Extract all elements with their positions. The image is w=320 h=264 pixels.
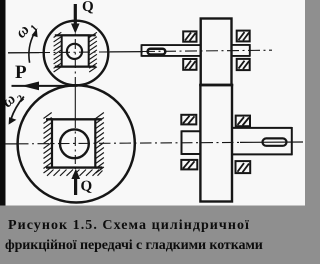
bearing D2 (bottom-right of roller2) bbox=[236, 161, 251, 173]
bearing block 1 square bbox=[62, 35, 89, 66]
svg-text:Q: Q bbox=[81, 179, 93, 195]
bearing D1 (top-right of roller2) bbox=[236, 116, 250, 127]
bearing A2 (bottom-left of roller1) bbox=[183, 59, 196, 70]
centerline vertical (through block2) bbox=[74, 119, 76, 169]
hatching block2 bottom bbox=[47, 170, 103, 176]
svg-text:Q: Q bbox=[82, 0, 94, 15]
shaft journal 1 bbox=[67, 44, 82, 59]
roller 2 circle (front view) bbox=[18, 85, 135, 202]
hatching block1 right bbox=[89, 32, 97, 72]
force Q bottom arrow shaft bbox=[74, 177, 77, 195]
input shaft left section bbox=[142, 44, 201, 46]
bearing A1 (top-left of roller1) bbox=[183, 31, 196, 41]
bearing block 2 right wall bbox=[94, 118, 96, 168]
left black border bar bbox=[0, 0, 6, 206]
svg-text:Р: Р bbox=[15, 62, 27, 83]
centerline top shaft (through side view) bbox=[143, 50, 272, 51]
centerline top shaft (left solid) bbox=[8, 52, 39, 54]
force Q top arrow shaft bbox=[74, 4, 77, 26]
force P arrow line bbox=[12, 85, 78, 87]
hatching block2 left bbox=[44, 113, 52, 174]
shaft journal 2 bbox=[60, 129, 89, 158]
figure caption line 1 bbox=[8, 218, 250, 234]
bearing block 2 bottom wall bbox=[46, 166, 103, 168]
label w2 bbox=[0, 86, 26, 114]
centerline bottom shaft (left solid) bbox=[5, 143, 17, 145]
w1 arc arrowhead bbox=[32, 29, 38, 37]
paper background bbox=[0, 0, 305, 206]
side view: roller 2 rect bbox=[200, 85, 232, 202]
rotation arc w1 bbox=[29, 34, 34, 63]
roller 1 circle (front view) bbox=[44, 21, 109, 86]
centerline vertical (between) bbox=[74, 86, 76, 119]
force P arrowhead bbox=[22, 82, 40, 91]
centerline bottom shaft (through circle) bbox=[17, 142, 240, 143]
bearing C1 (top-left of roller2) bbox=[181, 115, 196, 125]
centerline top shaft (gap solid) bbox=[110, 51, 143, 53]
bearing block 2 top wall bbox=[46, 118, 102, 120]
rotation arc w2 bbox=[11, 97, 24, 120]
bearing block 1 bottom wall bbox=[55, 65, 96, 67]
w2 arc arrowhead bbox=[9, 117, 17, 125]
force Q bottom arrowhead bbox=[71, 169, 80, 179]
side view: roller 1 rect bbox=[201, 19, 232, 86]
keyway shaft 2 bbox=[263, 138, 287, 145]
keyway shaft 1 bbox=[148, 49, 166, 55]
label w1 bbox=[12, 16, 40, 44]
bearing C2 (bottom-left of roller2) bbox=[181, 160, 197, 170]
contact line between rollers bbox=[199, 84, 233, 86]
figure caption line 2 bbox=[5, 238, 263, 254]
output shaft right section bbox=[232, 127, 292, 129]
centerline vertical (top circle) bbox=[74, 20, 76, 86]
bearing block 1 top wall bbox=[55, 34, 96, 36]
force Q top arrowhead bbox=[71, 24, 80, 34]
hatching block2 right bbox=[96, 113, 104, 174]
input shaft right stub bbox=[232, 44, 250, 46]
hatching block1 left bbox=[54, 32, 62, 72]
bearing B1 (top-right of roller1) bbox=[237, 31, 250, 42]
centerline bottom shaft (through keyway solid) bbox=[240, 141, 303, 143]
centerline top shaft (through circle) bbox=[39, 51, 110, 54]
bearing block 2 left wall bbox=[51, 118, 53, 168]
output shaft left stub bbox=[182, 130, 201, 132]
bearing B2 (bottom-right of roller1) bbox=[237, 59, 250, 70]
